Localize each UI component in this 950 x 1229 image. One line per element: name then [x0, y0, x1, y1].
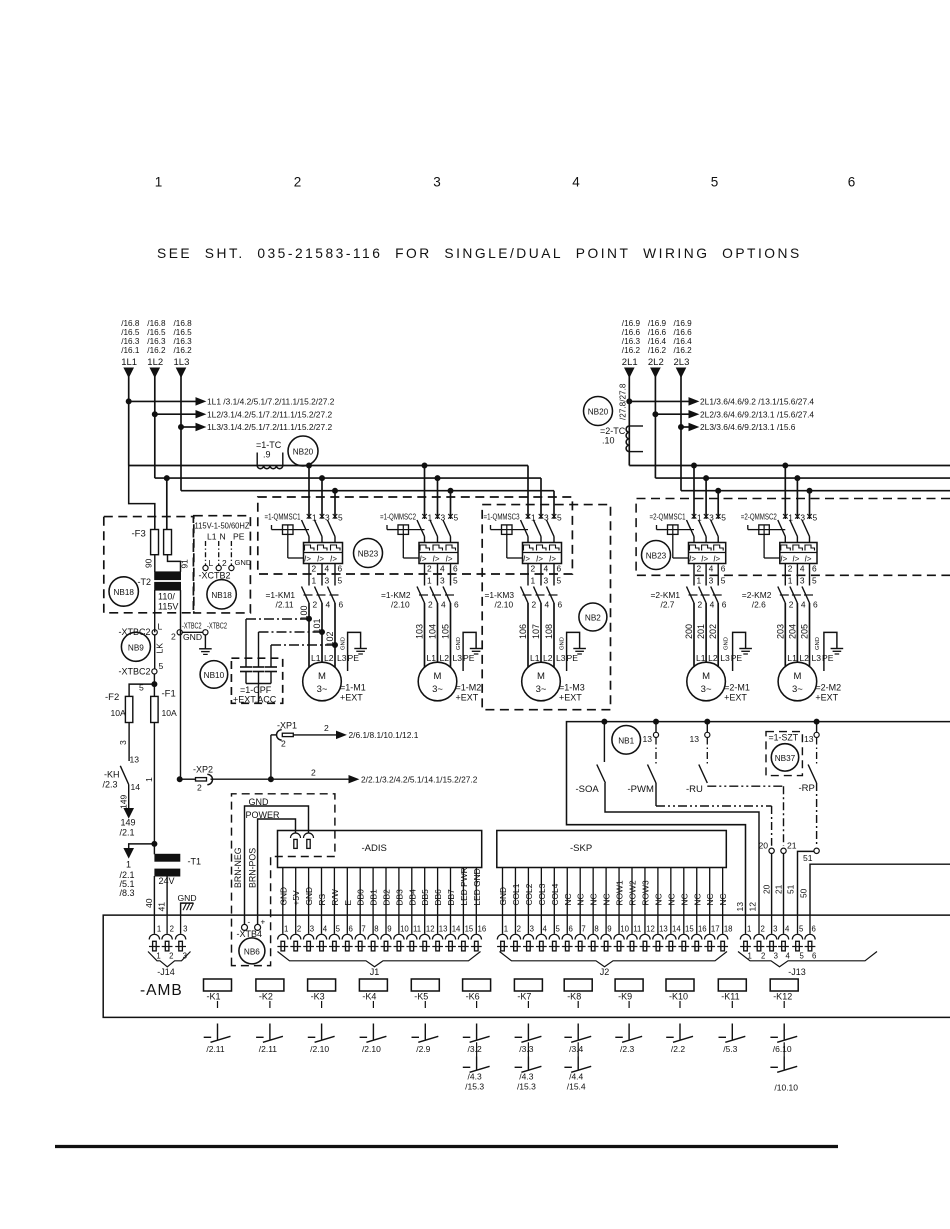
svg-text:3~: 3~: [317, 684, 328, 695]
wire 106 107 108 motor leads: [518, 603, 578, 667]
svg-text:+EXT: +EXT: [815, 693, 838, 703]
svg-text:6: 6: [558, 600, 563, 610]
svg-text:5: 5: [800, 952, 805, 961]
svg-text:E: E: [343, 900, 353, 906]
svg-text:/16.2: /16.2: [674, 346, 693, 355]
node column numbers: [155, 175, 856, 190]
circuit-breaker =1-QMMSC1: [265, 512, 344, 574]
svg-text:R/W: R/W: [330, 889, 340, 905]
svg-text:2: 2: [294, 175, 302, 190]
svg-text:/4.4: /4.4: [569, 1072, 583, 1082]
svg-text:2L1: 2L1: [622, 357, 638, 368]
circuit-breaker =1-QMMSC2: [380, 512, 459, 574]
svg-text:3: 3: [325, 576, 330, 586]
svg-text:I>: I>: [549, 555, 556, 564]
svg-text:6: 6: [812, 952, 816, 961]
svg-text:3: 3: [544, 576, 549, 586]
node dashed enclosure right QMMSC group: [636, 499, 950, 576]
node 1L2 tap reference: [152, 412, 157, 417]
svg-text:NB1: NB1: [618, 736, 634, 745]
svg-text:.10: .10: [602, 436, 615, 446]
connector J13 brace: [738, 952, 877, 967]
svg-text:=1-QMMSC2: =1-QMMSC2: [380, 512, 416, 522]
svg-text:L2: L2: [799, 653, 809, 663]
wire bus 2L1 phase A: [629, 465, 950, 467]
motor 1-M2: [418, 662, 481, 702]
svg-text:3: 3: [433, 175, 441, 190]
svg-text:M: M: [793, 671, 801, 682]
connector J14 brace: [148, 952, 191, 967]
svg-text:L3: L3: [453, 653, 463, 663]
svg-text:L3: L3: [812, 653, 822, 663]
svg-text:/2.6: /2.6: [752, 600, 766, 610]
svg-text:-XP2: -XP2: [193, 765, 213, 775]
svg-text:9: 9: [387, 925, 391, 934]
svg-text:1: 1: [126, 860, 131, 870]
switch -RP: [786, 722, 820, 915]
svg-text:=1-KM3: =1-KM3: [485, 590, 515, 600]
svg-text:103: 103: [415, 624, 425, 639]
svg-text:205: 205: [800, 624, 810, 639]
wire 13 bus: [567, 722, 950, 915]
note NB20: [288, 436, 318, 466]
motor 1-M3: [522, 662, 585, 702]
svg-text:/10.10: /10.10: [774, 1083, 798, 1093]
svg-text:2: 2: [427, 564, 432, 574]
svg-text:M: M: [318, 671, 326, 682]
svg-text:/5.3: /5.3: [723, 1044, 737, 1054]
svg-text:/3.2: /3.2: [468, 1044, 482, 1054]
switch -SOA: [576, 722, 760, 915]
svg-text:=1-M2: =1-M2: [456, 683, 482, 693]
contact -K12 second: [770, 1042, 798, 1092]
svg-text:6: 6: [557, 564, 562, 574]
svg-text:/16.4: /16.4: [674, 337, 693, 346]
svg-text:1: 1: [157, 925, 161, 934]
svg-text:3: 3: [773, 925, 777, 934]
svg-text:COL4: COL4: [550, 883, 560, 905]
node 1L1 tap reference: [126, 399, 131, 404]
svg-text:DB1: DB1: [369, 889, 379, 906]
svg-text:2: 2: [697, 564, 702, 574]
node 2L1 tap reference: [627, 399, 632, 404]
svg-text:1L3: 1L3: [174, 357, 190, 368]
svg-text:3: 3: [440, 576, 445, 586]
svg-text:4: 4: [326, 600, 331, 610]
svg-text:L2: L2: [543, 653, 553, 663]
svg-text:NC: NC: [679, 893, 689, 905]
svg-text:L: L: [209, 558, 214, 568]
note NB23 left: [354, 539, 383, 568]
svg-text:91: 91: [180, 559, 190, 569]
ground chassis at T1: [178, 893, 197, 915]
svg-text:LED PWR: LED PWR: [459, 867, 469, 905]
svg-text:11: 11: [633, 925, 641, 934]
node 1L1 1L2 1L3 incoming feed labels: [121, 319, 192, 368]
motor 1-M1: [303, 662, 366, 702]
note NB1: [612, 726, 641, 755]
svg-text:-K8: -K8: [567, 992, 581, 1002]
svg-text:12: 12: [748, 902, 758, 912]
svg-text:115V: 115V: [158, 602, 178, 612]
svg-text:6: 6: [812, 564, 817, 574]
wire 2L2 drop: [651, 368, 660, 377]
svg-text:6: 6: [813, 600, 818, 610]
svg-text:J2: J2: [600, 967, 610, 977]
connector J2 pins: [497, 868, 732, 951]
svg-text:/16.9: /16.9: [648, 319, 667, 328]
svg-text:GND: GND: [724, 637, 730, 650]
svg-text:10A: 10A: [111, 708, 127, 718]
svg-text:I>: I>: [792, 555, 799, 564]
svg-text:21: 21: [787, 841, 797, 851]
svg-text:108: 108: [544, 624, 554, 639]
svg-text:/16.6: /16.6: [674, 328, 693, 337]
svg-text:4: 4: [323, 925, 328, 934]
wire 1L3 drop: [177, 368, 186, 377]
svg-text:NC: NC: [666, 893, 676, 905]
svg-text:3: 3: [530, 925, 534, 934]
svg-text:2: 2: [313, 600, 318, 610]
svg-text:2: 2: [281, 739, 286, 749]
connector -XP1: [271, 721, 419, 780]
contact -K5 /2.9: [412, 1024, 439, 1055]
wire 2L1 drop: [625, 368, 634, 377]
svg-text:DB4: DB4: [407, 889, 417, 906]
svg-text:DB6: DB6: [433, 889, 443, 906]
relay -K1: [204, 979, 232, 1008]
svg-text:=1-SZT: =1-SZT: [769, 733, 799, 743]
ground PE: [341, 632, 367, 671]
svg-text:5: 5: [556, 925, 561, 934]
svg-text:-K2: -K2: [259, 992, 273, 1002]
svg-text:NB20: NB20: [293, 448, 314, 457]
svg-text:90: 90: [144, 558, 154, 568]
wire branch feeders right: [693, 466, 695, 517]
svg-text:/2.1: /2.1: [120, 828, 135, 838]
svg-text:PE: PE: [567, 653, 579, 663]
svg-text:11: 11: [413, 925, 421, 934]
contact -KH /2.3: [103, 755, 141, 838]
svg-text:2: 2: [788, 564, 793, 574]
svg-text:2: 2: [532, 600, 537, 610]
contactor =1-KM3 /2.10: [485, 564, 563, 610]
svg-text:I>: I>: [701, 555, 708, 564]
wire branch feeders left: [308, 466, 310, 517]
svg-text:2: 2: [698, 600, 703, 610]
wire 1L2 drop: [150, 368, 159, 377]
relay -K12: [770, 979, 798, 1008]
contact -K3 /2.10: [308, 1024, 335, 1055]
svg-text:4: 4: [544, 564, 549, 574]
node dashed enclosure branch 3: [482, 505, 610, 710]
note NB10: [200, 661, 228, 689]
svg-text:13: 13: [659, 925, 668, 934]
svg-text:-XP1: -XP1: [277, 721, 297, 731]
contactor =1-KM2 /2.10: [381, 564, 459, 610]
wire 100 to CPF: [246, 618, 309, 620]
svg-text:4: 4: [786, 952, 791, 961]
svg-text:J1: J1: [370, 967, 380, 977]
svg-text:/16.1: /16.1: [121, 346, 140, 355]
relay -K5: [411, 979, 439, 1008]
svg-text:3~: 3~: [432, 684, 443, 695]
svg-text:GND: GND: [341, 637, 347, 650]
wire 103 104 105 motor leads: [415, 603, 475, 667]
svg-text:/2.7: /2.7: [661, 600, 675, 610]
svg-text:-K5: -K5: [414, 992, 428, 1002]
capacitor filter =1-CPF +EXT.ACC: [231, 619, 282, 705]
svg-text:L1: L1: [311, 653, 321, 663]
svg-text:+5V: +5V: [291, 890, 301, 906]
svg-text:/16.2: /16.2: [648, 346, 667, 355]
transformer -T2 110/115V: [138, 572, 181, 779]
svg-text:/2.3: /2.3: [620, 1044, 634, 1054]
svg-text:DB7: DB7: [446, 889, 456, 906]
note NB18 left: [109, 577, 138, 606]
svg-text:3~: 3~: [536, 684, 547, 695]
svg-text:NC: NC: [705, 893, 715, 905]
svg-text:-SKP: -SKP: [570, 843, 592, 854]
svg-text:COL1: COL1: [511, 883, 521, 905]
svg-text:/3.3: /3.3: [519, 1044, 533, 1054]
switch -PWM: [628, 722, 775, 915]
svg-text:/2.11: /2.11: [206, 1044, 225, 1054]
fuse F3: [132, 529, 190, 572]
svg-text:2: 2: [170, 925, 174, 934]
svg-text:/16.5: /16.5: [147, 328, 166, 337]
svg-text:L2: L2: [324, 653, 334, 663]
svg-text:GND: GND: [278, 887, 288, 906]
svg-text:DB3: DB3: [394, 889, 404, 906]
svg-text:L1: L1: [427, 653, 437, 663]
svg-text:16: 16: [698, 925, 707, 934]
connector -J13 pins: [740, 925, 816, 961]
svg-text:=1-KM1: =1-KM1: [266, 590, 296, 600]
svg-text:-K9: -K9: [618, 992, 632, 1002]
svg-text:4: 4: [785, 925, 790, 934]
svg-text:/15.4: /15.4: [567, 1082, 586, 1092]
svg-text:ROW1: ROW1: [615, 880, 625, 905]
svg-text:I>: I>: [317, 555, 324, 564]
svg-text:7: 7: [581, 925, 585, 934]
svg-text:1L3/3.1/4.2/5.1/7.2/11.1/15.2/: 1L3/3.1/4.2/5.1/7.2/11.1/15.2/27.2: [207, 422, 332, 432]
svg-text:7: 7: [361, 925, 365, 934]
motor 2-M1: [687, 662, 750, 702]
svg-text:2/2.1/3.2/4.2/5.1/14.1/15.2/27: 2/2.1/3.2/4.2/5.1/14.1/15.2/27.2: [361, 775, 478, 785]
svg-text:=2-M1: =2-M1: [724, 683, 750, 693]
svg-text:=2-QMMSC1: =2-QMMSC1: [650, 512, 686, 522]
wire 2L3 drop: [677, 368, 686, 377]
svg-text:NC: NC: [576, 893, 586, 905]
svg-text:104: 104: [428, 624, 438, 639]
relay -K10: [666, 979, 694, 1008]
note NB6: [239, 938, 265, 964]
svg-text:2: 2: [517, 925, 521, 934]
svg-text:1: 1: [531, 576, 536, 586]
svg-text:13: 13: [690, 734, 700, 744]
svg-text:GND: GND: [560, 637, 566, 650]
svg-text:N: N: [220, 532, 226, 542]
svg-text:201: 201: [696, 624, 706, 639]
svg-text:DB0: DB0: [356, 889, 366, 906]
contact -K2 /2.11: [256, 1024, 283, 1055]
svg-text:17: 17: [711, 925, 720, 934]
svg-text:/3.4: /3.4: [569, 1044, 583, 1054]
transformer -T1 24V: [144, 844, 201, 915]
svg-text:6: 6: [812, 925, 816, 934]
relay =1-SZT NB37: [766, 732, 802, 776]
svg-text:L1: L1: [787, 653, 797, 663]
svg-text:-ADIS: -ADIS: [362, 843, 387, 854]
svg-text:3~: 3~: [701, 684, 712, 695]
svg-text:I>: I>: [420, 555, 427, 564]
svg-text:51: 51: [803, 853, 813, 863]
svg-text:NB18: NB18: [211, 591, 232, 600]
relay -K7: [514, 979, 542, 1008]
svg-text:12: 12: [426, 925, 435, 934]
svg-text:-RU: -RU: [686, 784, 703, 795]
svg-text:PE: PE: [233, 532, 245, 542]
svg-text:/2.11: /2.11: [276, 600, 294, 610]
svg-text:3: 3: [800, 576, 805, 586]
svg-text:-F2: -F2: [105, 692, 119, 703]
svg-text:-K3: -K3: [311, 992, 325, 1002]
svg-text:5: 5: [453, 576, 458, 586]
svg-text:/16.9: /16.9: [622, 319, 641, 328]
svg-text:L: L: [158, 622, 163, 632]
svg-text:/8.3: /8.3: [120, 888, 135, 898]
svg-text:.9: .9: [263, 450, 271, 460]
svg-text:2: 2: [297, 925, 301, 934]
svg-text:105: 105: [441, 624, 451, 639]
svg-text:13: 13: [804, 734, 814, 744]
svg-text:4: 4: [440, 564, 445, 574]
svg-text:/16.8: /16.8: [147, 319, 166, 328]
svg-text:/27.8/27.8: /27.8/27.8: [619, 383, 628, 420]
svg-text:6: 6: [349, 925, 353, 934]
svg-text:2: 2: [789, 600, 794, 610]
svg-text:GND: GND: [183, 632, 202, 642]
svg-text:1: 1: [427, 576, 432, 586]
svg-text:L3: L3: [556, 653, 566, 663]
svg-text:=1-QMMSC3: =1-QMMSC3: [484, 512, 520, 522]
svg-text:1: 1: [504, 925, 508, 934]
svg-text:I>: I>: [304, 555, 311, 564]
svg-text:PE: PE: [463, 653, 475, 663]
svg-text:2: 2: [312, 564, 317, 574]
wire 100 101 102 motor leads: [299, 603, 359, 667]
svg-text:-K12: -K12: [773, 992, 792, 1002]
svg-text:=1-M1: =1-M1: [340, 683, 366, 693]
svg-text:GND: GND: [304, 887, 314, 906]
wire 1L2 to F3: [166, 478, 168, 529]
module -SKP: [497, 831, 727, 868]
node dashed enclosure F3/T2: [104, 517, 194, 613]
relay -K4: [359, 979, 387, 1008]
relay -K6: [463, 979, 491, 1008]
svg-text:RS: RS: [317, 893, 327, 905]
svg-text:/2.10: /2.10: [495, 600, 514, 610]
svg-text:202: 202: [708, 624, 718, 639]
module -ADIS: [278, 831, 482, 868]
svg-text:2: 2: [197, 783, 202, 793]
svg-text:3: 3: [183, 925, 187, 934]
svg-text:-J13: -J13: [788, 967, 806, 977]
connector J1 pins: [277, 867, 486, 951]
svg-text:-PWM: -PWM: [628, 784, 654, 795]
svg-text:+EXT: +EXT: [456, 693, 479, 703]
svg-text:GND: GND: [178, 893, 197, 903]
wire bus 2L3 phase C: [681, 490, 950, 492]
svg-text:-SOA: -SOA: [576, 784, 600, 795]
terminal -XTBC2 2 GND: [171, 622, 227, 655]
svg-text:110/: 110/: [158, 592, 175, 602]
contact -K8 /3.4: [564, 1024, 591, 1055]
svg-text:2L3: 2L3: [674, 357, 690, 368]
svg-text:15: 15: [685, 925, 694, 934]
svg-text:10: 10: [620, 925, 629, 934]
svg-text:/2.2: /2.2: [671, 1044, 685, 1054]
wire bus 2L2 phase B: [655, 477, 950, 479]
svg-text:107: 107: [531, 624, 541, 639]
contact -K6 /3.2: [463, 1024, 490, 1055]
svg-text:LED GND: LED GND: [472, 868, 482, 905]
svg-text:I>: I>: [689, 555, 696, 564]
svg-text:NC: NC: [718, 893, 728, 905]
svg-text:NB2: NB2: [585, 614, 601, 623]
svg-text:/4.3: /4.3: [468, 1072, 482, 1082]
ground PE: [815, 632, 843, 671]
relay -K11: [718, 979, 746, 1008]
wire bus 1L3 phase C: [181, 490, 554, 492]
svg-text:BRN-POS: BRN-POS: [248, 848, 258, 888]
svg-text:2: 2: [761, 952, 765, 961]
svg-text:SEE SHT. 035-21583-116 FOR: SEE SHT. 035-21583-116 FOR SINGLE/DUAL P…: [157, 246, 802, 261]
svg-text:NC: NC: [589, 893, 599, 905]
svg-text:20: 20: [762, 884, 772, 894]
svg-text:204: 204: [787, 624, 797, 639]
svg-text:NC: NC: [563, 893, 573, 905]
terminal -XTBC2 5: [118, 661, 163, 697]
contactor =2-KM1 /2.7: [651, 564, 727, 610]
svg-text:5: 5: [454, 513, 459, 523]
svg-text:/6.10: /6.10: [773, 1044, 792, 1054]
svg-text:4: 4: [545, 600, 550, 610]
svg-text:/16.6: /16.6: [622, 328, 641, 337]
svg-text:NB23: NB23: [358, 550, 379, 559]
wire 102 to CPF: [271, 644, 335, 646]
svg-text:5: 5: [336, 925, 341, 934]
svg-text:2L3/3.6/4.6/9.2/13.1 /15.6: 2L3/3.6/4.6/9.2/13.1 /15.6: [700, 422, 796, 432]
svg-text:1: 1: [697, 576, 702, 586]
svg-text:106: 106: [518, 624, 528, 639]
svg-text:9: 9: [607, 925, 611, 934]
svg-text:GND: GND: [235, 558, 252, 567]
svg-text:2L1/3.6/4.6/9.2 /13.1/15.6/27.: 2L1/3.6/4.6/9.2 /13.1/15.6/27.4: [700, 397, 814, 407]
svg-text:18: 18: [724, 925, 733, 934]
svg-text:/4.3: /4.3: [519, 1072, 533, 1082]
svg-text:M: M: [434, 671, 442, 682]
svg-text:50: 50: [799, 888, 809, 898]
svg-text:/2.9: /2.9: [416, 1044, 430, 1054]
svg-text:/2.11: /2.11: [259, 1044, 278, 1054]
contact -K8 second: [564, 1042, 591, 1091]
svg-text:NB6: NB6: [244, 947, 260, 956]
svg-text:/16.3: /16.3: [147, 337, 166, 346]
svg-text:L3: L3: [337, 653, 347, 663]
node 2L1 2L2 2L3 incoming feed labels: [622, 319, 692, 368]
